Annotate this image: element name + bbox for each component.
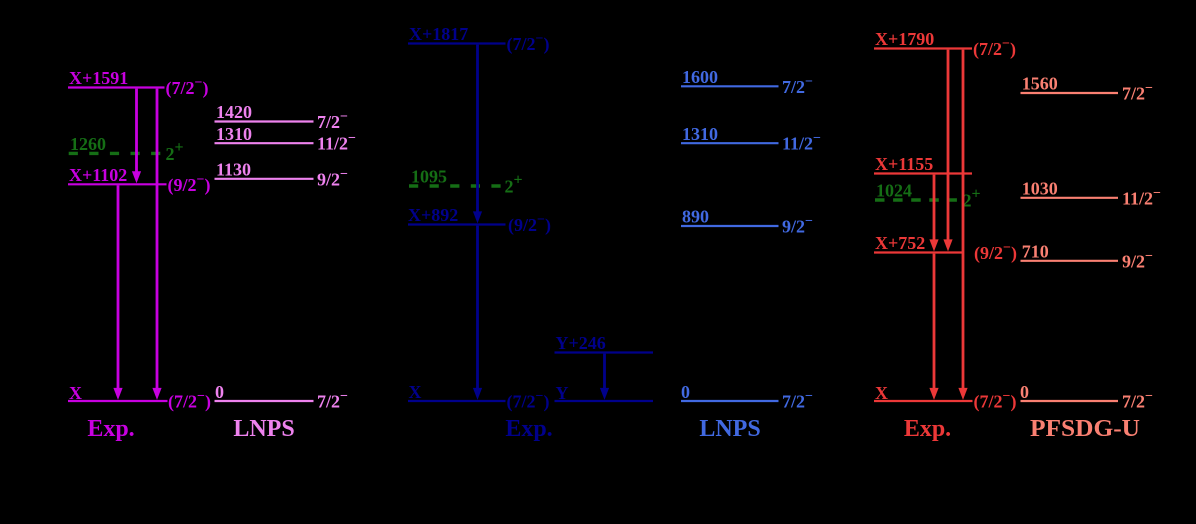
svg-text:PFSDG-U: PFSDG-U	[1030, 416, 1140, 442]
svg-text:X: X	[409, 382, 422, 402]
svg-text:0: 0	[1020, 382, 1029, 402]
svg-text:11/2−: 11/2−	[1122, 186, 1161, 209]
svg-text:X: X	[69, 383, 82, 403]
svg-text:890: 890	[682, 207, 709, 227]
svg-text:Exp.: Exp.	[904, 416, 951, 442]
svg-text:X+1817: X+1817	[409, 24, 468, 44]
svg-text:Y+246: Y+246	[556, 333, 606, 353]
svg-text:0: 0	[681, 382, 690, 402]
svg-text:X+1155: X+1155	[875, 154, 933, 174]
svg-text:1030: 1030	[1022, 179, 1058, 199]
svg-text:1420: 1420	[216, 102, 252, 122]
svg-text:1024: 1024	[876, 180, 912, 200]
svg-text:LNPS: LNPS	[233, 416, 294, 442]
svg-text:X+1790: X+1790	[875, 29, 934, 49]
svg-text:(7/2−): (7/2−)	[974, 389, 1017, 413]
svg-text:(9/2−): (9/2−)	[168, 173, 211, 197]
svg-text:2+: 2+	[963, 186, 981, 211]
svg-text:Exp.: Exp.	[505, 416, 552, 442]
svg-text:7/2−: 7/2−	[782, 389, 813, 412]
svg-text:X+752: X+752	[875, 233, 925, 253]
svg-text:710: 710	[1022, 242, 1049, 262]
svg-text:(7/2−): (7/2−)	[166, 76, 209, 100]
svg-text:7/2−: 7/2−	[1122, 81, 1153, 104]
svg-text:1260: 1260	[70, 134, 106, 154]
svg-text:1130: 1130	[216, 160, 251, 180]
svg-text:1310: 1310	[216, 124, 252, 144]
svg-text:9/2−: 9/2−	[1122, 249, 1153, 272]
svg-text:X: X	[875, 383, 888, 403]
svg-text:7/2−: 7/2−	[1122, 389, 1153, 412]
svg-text:(7/2−): (7/2−)	[507, 32, 550, 56]
svg-text:LNPS: LNPS	[699, 416, 760, 442]
svg-text:1310: 1310	[682, 124, 718, 144]
svg-text:1095: 1095	[411, 166, 447, 186]
svg-text:7/2−: 7/2−	[317, 389, 348, 412]
svg-text:(7/2−): (7/2−)	[507, 389, 550, 413]
svg-text:X+892: X+892	[408, 205, 458, 225]
svg-text:Y: Y	[556, 383, 569, 403]
svg-text:7/2−: 7/2−	[317, 110, 348, 133]
svg-text:1560: 1560	[1022, 74, 1058, 94]
svg-text:X+1102: X+1102	[69, 165, 127, 185]
svg-text:7/2−: 7/2−	[782, 74, 813, 97]
svg-text:(9/2−): (9/2−)	[508, 213, 551, 237]
svg-text:(9/2−): (9/2−)	[974, 241, 1017, 265]
svg-text:Exp.: Exp.	[87, 416, 134, 442]
svg-text:(7/2−): (7/2−)	[168, 389, 211, 413]
svg-text:(7/2−): (7/2−)	[973, 37, 1016, 61]
svg-text:2+: 2+	[505, 172, 523, 197]
svg-text:1600: 1600	[682, 67, 718, 87]
svg-text:11/2−: 11/2−	[317, 131, 356, 154]
svg-text:0: 0	[215, 382, 224, 402]
svg-text:11/2−: 11/2−	[782, 131, 821, 154]
svg-text:X+1591: X+1591	[69, 68, 128, 88]
svg-text:9/2−: 9/2−	[317, 167, 348, 190]
svg-text:2+: 2+	[166, 139, 184, 164]
svg-text:9/2−: 9/2−	[782, 214, 813, 237]
